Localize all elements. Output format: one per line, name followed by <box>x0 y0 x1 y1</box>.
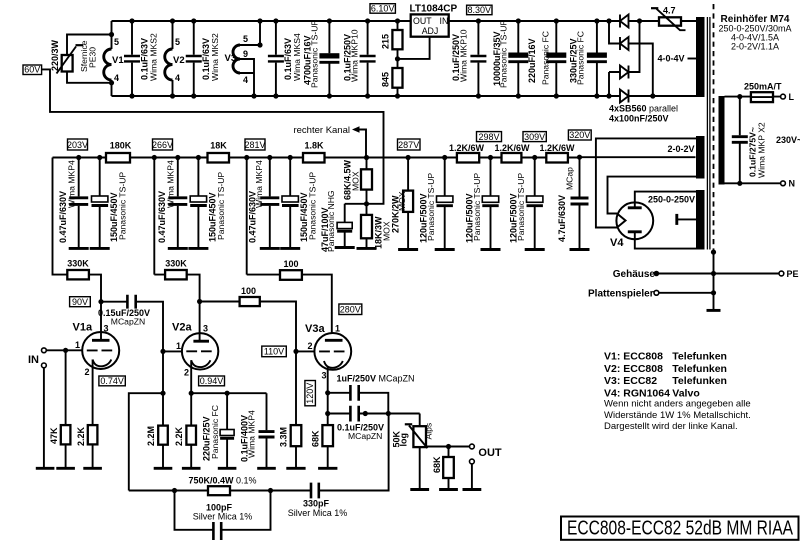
svg-text:Silver Mica 1%: Silver Mica 1% <box>193 512 253 522</box>
capacitor 0.47uF/630V Wima MKP4 (node 281V) <box>269 158 271 248</box>
capacitor 150uF/450V Panasonic TS-UP (node 281V) <box>289 158 291 248</box>
wire B+ to 2-0-2V center tap <box>580 156 696 158</box>
capacitor 0.1uF/250V MCapZN (output coupling) <box>325 411 330 416</box>
svg-text:281V: 281V <box>244 140 265 150</box>
node 203V label <box>68 139 88 150</box>
svg-text:Panasonic TS-UP: Panasonic TS-UP <box>308 172 318 240</box>
svg-text:120V: 120V <box>305 383 315 404</box>
capacitor C4 4700uF/16V Panasonic TS-UP <box>328 21 330 96</box>
resistor 68K (V3a cathode) <box>322 425 333 446</box>
potentiometer 50K log Alps <box>419 414 421 427</box>
resistor R 1.2K/6W <box>457 153 479 163</box>
svg-text:Wima MKP X2: Wima MKP X2 <box>757 122 767 178</box>
ground <box>357 247 377 250</box>
terminal N <box>781 181 786 186</box>
capacitor C6 0.1uF/250V Wima MKP10 <box>477 21 479 96</box>
svg-text:4.7uF/630V: 4.7uF/630V <box>557 195 567 242</box>
svg-text:2-0-2V: 2-0-2V <box>668 144 695 154</box>
ground <box>318 467 337 470</box>
svg-text:MOX: MOX <box>397 191 407 211</box>
svg-text:L: L <box>789 92 795 102</box>
svg-text:V1: V1 <box>112 55 124 66</box>
capacitor C3 0.1uF/63V Wima MKS4 <box>275 21 277 96</box>
resistor 47K <box>65 350 67 425</box>
capacitor C5 0.1uF/250V Wima MKP10 <box>367 21 369 96</box>
node 281V label <box>245 139 265 150</box>
svg-text:4x100nF/250V: 4x100nF/250V <box>609 114 669 124</box>
capacitor C1 0.1uF/63V Wima MKS2 <box>131 21 133 96</box>
svg-text:V4: V4 <box>610 237 624 249</box>
transformer secondary bar 250-0-250V <box>696 190 705 250</box>
tube V3a (ECC82 triode) <box>314 333 351 370</box>
transformer core <box>707 17 710 250</box>
title box ECC808-ECC82 52dB MM RIAA <box>561 517 799 540</box>
wire grid to feedback row <box>162 351 164 425</box>
wire bottom heater rail <box>112 95 697 97</box>
svg-text:Panasonic TS-UP: Panasonic TS-UP <box>118 172 128 240</box>
svg-text:Wima MKS2: Wima MKS2 <box>210 33 220 81</box>
ground <box>398 248 418 251</box>
svg-text:Dargestellt wird der linke Kan: Dargestellt wird der linke Kanal. <box>604 421 738 432</box>
ground <box>168 247 188 250</box>
node V1a grid junction <box>63 348 68 353</box>
ground <box>154 467 173 470</box>
ground <box>218 467 237 470</box>
svg-text:4: 4 <box>114 73 119 83</box>
ground <box>481 248 501 251</box>
fuse 250mA/T <box>751 92 773 102</box>
node V1a plate junction <box>98 299 103 304</box>
capacitor 47uF/100V Panasonic NHG <box>344 204 346 246</box>
svg-text:1: 1 <box>75 340 80 350</box>
svg-text:250mA/T: 250mA/T <box>744 82 782 92</box>
svg-text:PE: PE <box>787 269 799 279</box>
ground <box>69 247 89 250</box>
svg-text:N: N <box>789 179 796 189</box>
resistor 330K (V2a plate load) <box>165 270 187 279</box>
V3a cathode <box>324 361 343 368</box>
capacitor C8 220uF/16V Panasonic FC <box>555 21 557 96</box>
resistor 2.2M <box>158 426 168 445</box>
resistor R 18K <box>208 153 230 163</box>
transformer secondary bar 2-0-2V <box>696 136 705 179</box>
wire primary L line <box>725 96 781 98</box>
transformer shield (dashed) <box>713 4 715 252</box>
svg-text:220uF/16V: 220uF/16V <box>527 38 537 83</box>
node heater elevation junction <box>366 190 368 215</box>
svg-text:IN: IN <box>440 16 449 26</box>
svg-text:Silver Mica 1%: Silver Mica 1% <box>288 508 348 518</box>
svg-text:203V: 203V <box>67 140 88 150</box>
svg-text:V3: ECC82: V3: ECC82 <box>604 375 657 387</box>
svg-text:Panasonic NHG: Panasonic NHG <box>326 190 336 252</box>
svg-text:Panasonic FC: Panasonic FC <box>576 31 586 85</box>
capacitor 220uF/25V Panasonic FC <box>226 393 228 467</box>
svg-text:PE30: PE30 <box>88 47 98 68</box>
svg-text:V2: V2 <box>173 55 185 66</box>
capacitor 1uF/250V MCapZN (output coupling) <box>325 390 330 395</box>
svg-text:4-0-4V: 4-0-4V <box>658 54 685 64</box>
svg-text:rechter Kanal: rechter Kanal <box>293 125 350 136</box>
resistor 3.3M <box>295 351 297 425</box>
svg-text:Telefunken: Telefunken <box>672 351 727 363</box>
V1a anode <box>100 302 102 341</box>
ground <box>410 488 429 491</box>
node 0.94V label <box>199 376 225 386</box>
wire feedback return <box>129 393 163 490</box>
svg-text:1.2K/6W: 1.2K/6W <box>539 143 575 153</box>
svg-text:266V: 266V <box>152 140 173 150</box>
resistor 100 (V2a plate stopper) <box>240 297 260 306</box>
svg-text:Gehäuse: Gehäuse <box>613 269 656 280</box>
svg-text:Panasonic TS-UP: Panasonic TS-UP <box>499 20 509 88</box>
svg-text:1: 1 <box>335 324 340 334</box>
capacitor 0.47uF/630V Wima MKP4 (node 266V) <box>177 158 179 248</box>
heater V1 <box>104 49 112 80</box>
capacitor 0.15uF/250V MCapZN (coupling) <box>101 302 163 352</box>
node 120V label (rotated) <box>305 381 316 406</box>
resistor 270K/2W MOX <box>407 158 409 249</box>
svg-text:ADJ: ADJ <box>422 26 439 36</box>
wire 2-0-2V bottom tap to filament <box>608 177 697 214</box>
svg-text:V3: V3 <box>225 53 237 64</box>
svg-text:60V: 60V <box>24 65 40 75</box>
svg-text:5: 5 <box>114 37 119 47</box>
node 0.74V label <box>99 376 125 386</box>
wire top heater rail <box>112 20 697 22</box>
tube V4 RGN1064 <box>616 202 653 239</box>
svg-text:845: 845 <box>381 72 391 87</box>
ground <box>56 467 75 470</box>
V1a cathode <box>93 360 112 367</box>
svg-text:3.3M: 3.3M <box>279 427 289 447</box>
ground <box>260 247 280 250</box>
node 320V label <box>568 130 591 140</box>
resistor R 1.8K <box>303 153 325 163</box>
resistor 215 <box>397 21 399 96</box>
V2a grid <box>186 350 211 352</box>
svg-text:2-0-2V/1.1A: 2-0-2V/1.1A <box>731 42 779 52</box>
svg-text:Alps: Alps <box>424 423 434 440</box>
resistor 68K (output) <box>448 447 450 458</box>
wire ADJ to divider <box>398 37 430 59</box>
node V2a grid junction <box>160 349 165 354</box>
node 287V label <box>398 139 421 150</box>
wire B+ rail <box>53 157 580 159</box>
svg-text:2: 2 <box>85 367 90 377</box>
svg-text:Panasonic TS-UP: Panasonic TS-UP <box>216 172 226 240</box>
trimmer P1 220/3W Sfernice PE30 <box>67 35 112 83</box>
heater V2 <box>172 21 174 96</box>
capacitor 150uF/450V Panasonic TS-UP (node 266V) <box>197 158 199 248</box>
V3a anode <box>325 339 343 342</box>
svg-text:Wima MKP10: Wima MKP10 <box>459 29 469 82</box>
ground <box>36 467 55 470</box>
wire 330K#2 feed from node 266V <box>153 158 155 275</box>
ground <box>525 248 545 251</box>
capacitor 0.47uF/630V Wima MKP4 (node 203V) <box>78 158 80 248</box>
svg-text:2: 2 <box>184 368 189 378</box>
resistor 845 <box>392 68 402 88</box>
svg-text:Widerstände 1W 1% Metallschich: Widerstände 1W 1% Metallschicht. <box>604 410 751 421</box>
diode D3 (SB560) <box>609 21 640 96</box>
V4 anode bottom <box>628 230 642 233</box>
svg-text:Panasonic TS-UP: Panasonic TS-UP <box>310 20 320 88</box>
svg-text:0.94V: 0.94V <box>200 376 224 386</box>
capacitor 120uF/500V Panasonic TS-UP (node 287V) <box>444 158 446 249</box>
ground symbol <box>707 309 721 312</box>
node 110V label <box>262 346 287 357</box>
svg-text:MOX: MOX <box>351 171 361 191</box>
heater V3 (pins 5,9,4) <box>240 21 260 96</box>
ground <box>188 247 208 250</box>
capacitor 120uF/500V Panasonic TS-UP (node 298V) <box>490 158 492 249</box>
wire primary N line <box>725 182 781 184</box>
resistor 100 (V3a plate) <box>280 270 302 280</box>
svg-text:287V: 287V <box>398 140 419 150</box>
svg-text:1.8K: 1.8K <box>304 141 324 151</box>
ground <box>463 488 482 491</box>
svg-text:4.7: 4.7 <box>663 6 676 16</box>
svg-text:5: 5 <box>175 37 180 47</box>
svg-text:309V: 309V <box>524 132 545 142</box>
svg-text:Wima MKP4: Wima MKP4 <box>67 160 77 208</box>
V2a anode <box>199 302 201 342</box>
ground of 250-0-250V center tap <box>678 218 696 220</box>
wire IN ground <box>43 368 45 467</box>
svg-text:90V: 90V <box>72 297 88 307</box>
svg-text:4: 4 <box>175 73 180 83</box>
svg-text:298V: 298V <box>478 132 499 142</box>
svg-text:2.2K: 2.2K <box>76 426 86 446</box>
svg-text:280V: 280V <box>340 305 361 315</box>
svg-text:Panasonic TS-UP: Panasonic TS-UP <box>472 173 482 241</box>
svg-text:V2a: V2a <box>172 322 192 334</box>
svg-text:68K: 68K <box>432 456 442 473</box>
svg-text:V3a: V3a <box>305 323 325 335</box>
svg-text:215: 215 <box>381 34 391 49</box>
svg-text:180K: 180K <box>110 141 132 151</box>
svg-text:5: 5 <box>243 34 248 44</box>
svg-text:2.2M: 2.2M <box>146 426 156 446</box>
diode D2 (SB560) <box>609 21 653 96</box>
svg-text:3: 3 <box>203 324 208 334</box>
ground <box>257 467 276 470</box>
svg-text:log: log <box>399 433 409 447</box>
capacitor C7 10000uF/35V Panasonic TS-UP <box>517 21 519 96</box>
svg-text:MCapZN: MCapZN <box>348 431 382 441</box>
svg-text:8.30V: 8.30V <box>468 5 492 15</box>
svg-text:LT1084CP: LT1084CP <box>410 4 458 15</box>
svg-text:Wima MKS2: Wima MKS2 <box>149 33 159 81</box>
svg-text:Panasonic FC: Panasonic FC <box>210 405 220 459</box>
tube V2a (ECC808 triode) <box>182 333 218 369</box>
resistor 68K/4.5W MOX <box>366 158 368 170</box>
V1a grid <box>87 349 112 351</box>
svg-text:750K/0.4W 0.1%: 750K/0.4W 0.1% <box>189 476 257 486</box>
svg-text:MCapZN: MCapZN <box>111 317 145 327</box>
resistor R 1.2K/6W <box>502 153 522 163</box>
node 6.10V label <box>370 4 395 14</box>
svg-text:Wima MKS4: Wima MKS4 <box>292 33 302 81</box>
svg-text:1uF/250V MCapZN: 1uF/250V MCapZN <box>337 374 415 384</box>
V4 anode top <box>628 206 642 209</box>
wire shield to ground <box>713 252 715 309</box>
svg-text:100: 100 <box>241 286 256 296</box>
capacitor 330pF Silver Mica 1% <box>311 483 319 499</box>
svg-text:4xSB560 parallel: 4xSB560 parallel <box>609 104 678 114</box>
wire V3a plate feed from node 281V <box>246 158 248 275</box>
terminal L <box>781 94 786 99</box>
svg-text:Telefunken: Telefunken <box>672 363 727 375</box>
svg-text:Panasonic FC: Panasonic FC <box>541 31 551 85</box>
svg-text:V1: ECC808: V1: ECC808 <box>604 351 663 363</box>
resistor R 180K <box>106 153 130 163</box>
wire left heater vertical <box>111 21 113 96</box>
svg-text:V2: ECC808: V2: ECC808 <box>604 363 663 375</box>
terminal OUT <box>470 444 475 449</box>
svg-text:Telefunken: Telefunken <box>672 375 727 387</box>
svg-text:320V: 320V <box>569 130 590 140</box>
ground <box>182 467 201 470</box>
svg-text:Plattenspieler: Plattenspieler <box>588 288 654 299</box>
terminal PE <box>779 271 784 276</box>
diode D4 (SB560) <box>628 90 630 103</box>
resistor R 1.2K/6W <box>546 153 568 163</box>
V3a grid <box>319 350 344 352</box>
svg-text:330K: 330K <box>67 259 89 269</box>
svg-text:0.74V: 0.74V <box>100 376 124 386</box>
svg-text:9: 9 <box>243 49 248 59</box>
svg-text:MCap: MCap <box>565 167 575 190</box>
svg-text:330K: 330K <box>165 259 187 269</box>
svg-text:V1a: V1a <box>73 322 93 334</box>
capacitor 120uF/500V Panasonic TS-UP (node 309V) <box>534 158 536 249</box>
capacitor C2 0.1uF/63V Wima MKS2 <box>193 21 195 96</box>
svg-text:Panasonic TS-UP: Panasonic TS-UP <box>516 173 526 241</box>
wire 2-0-2V top tap to filament <box>596 138 696 227</box>
resistor 18K/3W MOX <box>361 215 372 238</box>
node 309V label <box>523 132 546 142</box>
rheostat R 4.7 <box>659 17 681 25</box>
svg-text:18K: 18K <box>210 141 227 151</box>
svg-text:2: 2 <box>308 341 313 351</box>
svg-text:68K: 68K <box>311 430 321 447</box>
node 266V label <box>153 139 173 150</box>
node 60V label <box>23 65 42 75</box>
node 8.30V label <box>467 5 492 15</box>
svg-text:4: 4 <box>243 75 248 85</box>
ground <box>570 248 590 251</box>
ground <box>335 246 355 249</box>
diode D1 (SB560) <box>619 15 621 28</box>
node V2a plate junction <box>197 299 202 304</box>
tube V1a (ECC808 triode) <box>82 332 119 369</box>
transformer secondary bar 4-0-4V <box>696 17 705 97</box>
svg-text:Panasonic TS-UP: Panasonic TS-UP <box>426 173 436 241</box>
V4 filament <box>617 214 626 228</box>
junction dots bridge <box>606 18 611 23</box>
svg-text:100: 100 <box>283 259 298 269</box>
node 280V label <box>339 304 362 315</box>
svg-text:230V~: 230V~ <box>776 135 800 145</box>
svg-text:3: 3 <box>104 324 109 334</box>
svg-text:220/3W: 220/3W <box>50 39 60 71</box>
svg-text:OUT: OUT <box>478 447 502 459</box>
svg-text:110V: 110V <box>264 347 284 357</box>
capacitor 100pF Silver Mica 1% <box>175 491 271 530</box>
capacitor 4.7uF/630V MCap <box>579 157 581 248</box>
svg-text:47K: 47K <box>49 427 59 444</box>
resistor 2.2K (V2a cathode) <box>186 426 196 445</box>
V2a cathode <box>191 360 210 367</box>
capacitor CX 0.1uF/275V~ Wima MKP X2 <box>739 97 741 184</box>
capacitor C9 330uF/25V Panasonic FC <box>596 21 598 96</box>
node heater elevation taps on V1 line <box>109 32 114 37</box>
resistor 330K (V1a plate load) <box>53 158 68 275</box>
ground <box>280 247 300 250</box>
ground <box>90 247 110 250</box>
svg-text:Wima MKP4: Wima MKP4 <box>254 160 264 208</box>
svg-text:Wenn nicht anders angegeben al: Wenn nicht anders angegeben alle <box>604 399 751 410</box>
wire pot wiper to OUT <box>427 446 470 448</box>
ground <box>439 488 458 491</box>
svg-text:Wima MKP4: Wima MKP4 <box>166 160 176 208</box>
node 298V label <box>477 132 502 142</box>
ground <box>83 467 102 470</box>
capacitor 0.1uF/400V Wima MKP4 <box>266 393 268 467</box>
node 90V label <box>70 297 91 307</box>
capacitor 150uF/450V Panasonic TS-UP (node 203V) <box>99 158 101 248</box>
svg-text:250-0-250V: 250-0-250V <box>648 195 695 205</box>
svg-text:1.2K/6W: 1.2K/6W <box>449 143 485 153</box>
svg-text:1.2K/6W: 1.2K/6W <box>494 143 530 153</box>
svg-text:OUT: OUT <box>413 16 432 26</box>
ground <box>286 467 305 470</box>
svg-text:6.10V: 6.10V <box>371 4 395 14</box>
resistor 2.2K (V1a cathode) <box>88 425 98 444</box>
ground <box>435 248 455 251</box>
svg-text:IN: IN <box>28 354 39 366</box>
svg-text:Wima MKP4: Wima MKP4 <box>247 410 257 458</box>
svg-text:Wima MKP10: Wima MKP10 <box>350 29 360 82</box>
svg-text:2.2K: 2.2K <box>174 426 184 446</box>
transformer primary bar <box>719 96 725 185</box>
svg-text:ECC808-ECC82 52dB MM RIAA: ECC808-ECC82 52dB MM RIAA <box>567 517 793 540</box>
resistor 750K/0.4W 0.1% <box>129 490 208 492</box>
svg-text:3: 3 <box>322 371 327 381</box>
svg-text:1: 1 <box>176 341 181 351</box>
wire V2a cathode row <box>191 392 266 394</box>
wire 60V heater elevation line <box>42 69 384 203</box>
